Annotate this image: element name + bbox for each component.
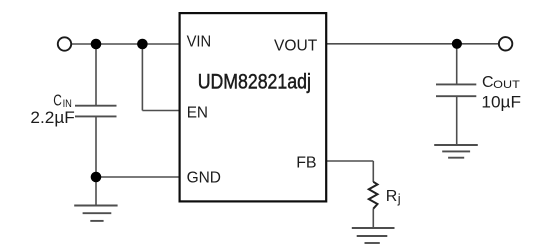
svg-text:C: C (53, 92, 62, 109)
svg-text:FB: FB (296, 154, 316, 171)
svg-text:GND: GND (187, 170, 221, 187)
svg-text:R: R (386, 188, 398, 205)
svg-text:VOUT: VOUT (274, 38, 317, 55)
svg-text:j: j (397, 191, 401, 206)
svg-text:10µF: 10µF (481, 93, 521, 112)
svg-text:UDM82821adj: UDM82821adj (198, 70, 311, 93)
svg-text:2.2µF: 2.2µF (30, 108, 74, 127)
svg-text:VIN: VIN (187, 34, 212, 51)
svg-text:C: C (482, 74, 494, 91)
svg-text:OUT: OUT (493, 79, 520, 91)
svg-text:EN: EN (187, 104, 208, 121)
